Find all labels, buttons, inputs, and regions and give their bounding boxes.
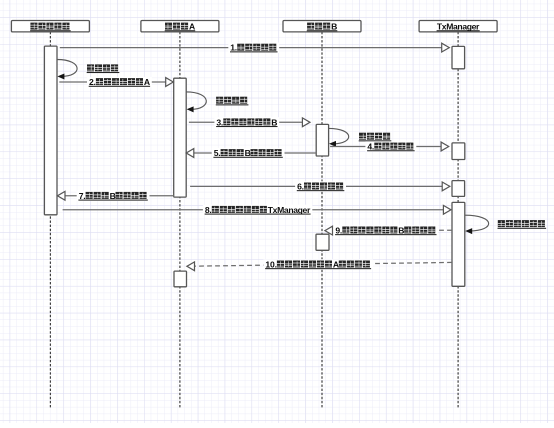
svg-text:A: A bbox=[144, 77, 150, 87]
activation bar 参与方B second bbox=[316, 234, 329, 250]
svg-text:8.: 8. bbox=[205, 205, 212, 215]
message 5 参与方B返回结果 bbox=[186, 148, 316, 158]
activation bar TxManager 4 bbox=[452, 202, 465, 286]
svg-text:7.: 7. bbox=[79, 191, 86, 201]
message 7 参与方B返回结果 bbox=[57, 191, 173, 201]
svg-text:B: B bbox=[331, 22, 337, 32]
svg-text:B: B bbox=[398, 226, 404, 236]
svg-text:3.: 3. bbox=[216, 117, 223, 127]
svg-text:A: A bbox=[189, 22, 195, 32]
actor 参与方A bbox=[141, 21, 219, 32]
activation bar TxManager 3 bbox=[452, 181, 465, 197]
activation bar TxManager 1 bbox=[452, 46, 465, 68]
svg-text:4.: 4. bbox=[367, 142, 374, 152]
lifeline 事务发起方 bbox=[49, 32, 51, 408]
lifeline TxManager bbox=[457, 32, 459, 408]
svg-text:B: B bbox=[271, 117, 277, 127]
lifeline 参与方B bbox=[321, 32, 323, 408]
svg-text:2.: 2. bbox=[89, 77, 96, 87]
actor 事务发起方 bbox=[11, 21, 89, 32]
svg-text:1.: 1. bbox=[230, 43, 237, 53]
svg-text:5.: 5. bbox=[214, 148, 221, 158]
self message 执行业务 on 参与方A bbox=[186, 92, 248, 113]
lifeline 参与方A bbox=[179, 32, 181, 408]
message 9 异步通知参与方B事务提交 bbox=[325, 225, 452, 235]
message 10 异步通知参与方A事务提交 bbox=[187, 259, 452, 271]
self message 执行业务 on 参与方B bbox=[329, 128, 392, 147]
activation bar 事务发起方 bbox=[44, 46, 57, 215]
message 3 调用业务模块B bbox=[189, 117, 310, 127]
message 8 关闭事务并通知TxManager bbox=[63, 205, 451, 215]
svg-text:B: B bbox=[110, 191, 116, 201]
self message 执行业务 on 事务发起方 bbox=[57, 60, 119, 80]
self message 通知事务模块 on TxManager bbox=[465, 215, 546, 234]
svg-text:9.: 9. bbox=[335, 226, 342, 236]
message 6 添加事务组 bbox=[190, 181, 450, 191]
svg-text:10.: 10. bbox=[265, 260, 277, 270]
svg-text:6.: 6. bbox=[297, 182, 304, 192]
message 4 添加事务组 bbox=[330, 141, 449, 151]
svg-text:TxManager: TxManager bbox=[437, 22, 480, 32]
svg-text:A: A bbox=[333, 260, 339, 270]
message 2 调用业务模块A bbox=[59, 77, 173, 87]
actor TxManager bbox=[419, 21, 497, 32]
actor 参与方B bbox=[283, 21, 361, 32]
activation bar TxManager 2 bbox=[452, 143, 465, 160]
svg-text:TxManager: TxManager bbox=[268, 205, 311, 215]
message 1 创建事务组 bbox=[60, 43, 450, 53]
activation bar 参与方B bbox=[316, 124, 328, 156]
activation bar 参与方A bbox=[174, 78, 187, 197]
svg-text:B: B bbox=[245, 148, 251, 158]
activation bar 参与方A second bbox=[174, 271, 187, 287]
